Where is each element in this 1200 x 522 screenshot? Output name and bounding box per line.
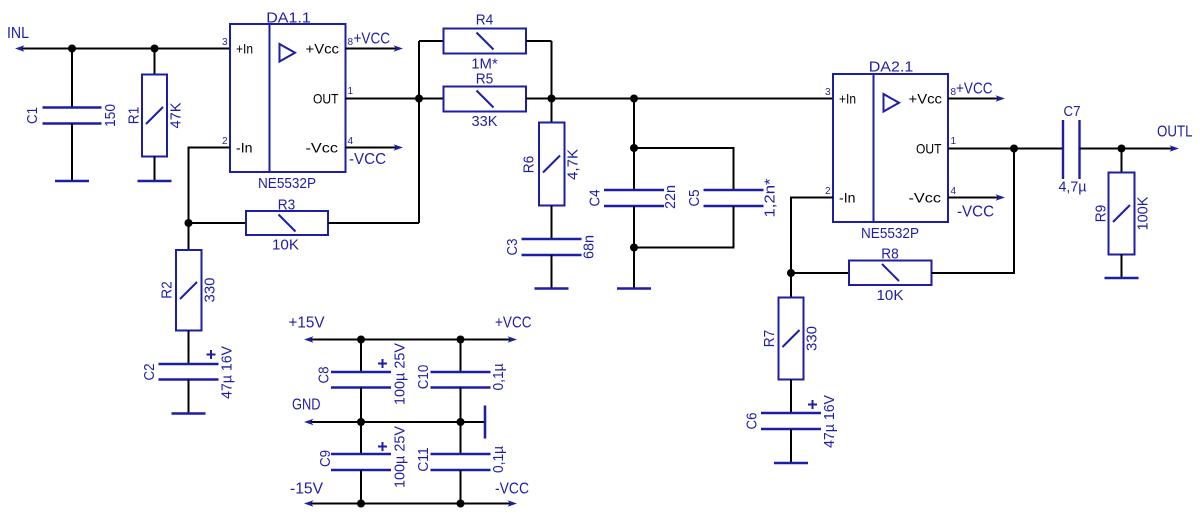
svg-text:100K: 100K — [1134, 197, 1151, 231]
svg-text:68n: 68n — [580, 235, 597, 259]
junction feedback node B — [787, 269, 795, 277]
op-amp DA1.1 — [222, 10, 354, 193]
svg-text:R9: R9 — [1092, 205, 1109, 223]
svg-text:C11: C11 — [415, 447, 432, 472]
junction C11 bottom — [457, 500, 465, 508]
svg-text:DA2.1: DA2.1 — [869, 59, 914, 76]
wire C11 upper lead — [460, 422, 462, 454]
wire DA2.1 -In feedback down — [791, 198, 833, 274]
junction OUT node — [415, 95, 423, 103]
junction R8/OUT node — [1010, 145, 1018, 153]
wire -15V rail — [309, 503, 512, 505]
svg-text:+In: +In — [236, 41, 253, 57]
svg-text:100µ 25V: 100µ 25V — [391, 426, 408, 488]
svg-text:2: 2 — [222, 136, 228, 147]
node -VCC arrow (rail) — [508, 500, 518, 507]
node +VCC arrow (DA2.1) — [996, 95, 1006, 102]
wire C8 lower lead — [360, 388, 362, 423]
wire R8 right up to OUT node — [932, 149, 1015, 274]
ground under C1 — [55, 180, 89, 183]
svg-text:150: 150 — [102, 104, 119, 127]
svg-text:+Vcc: +Vcc — [909, 91, 943, 107]
svg-text:+VCC: +VCC — [354, 31, 391, 48]
wire main input INL to DA1.1 +In — [20, 48, 230, 50]
node +VCC arrow (rail) — [508, 336, 518, 343]
svg-text:47µ 16V: 47µ 16V — [218, 346, 235, 399]
svg-text:C9: C9 — [317, 450, 334, 467]
wire C5 branch top — [634, 148, 734, 190]
svg-text:R4: R4 — [476, 12, 494, 29]
capacitor C6 (electrolytic) — [743, 395, 838, 448]
resistor R8 — [849, 246, 932, 305]
svg-text:-VCC: -VCC — [349, 151, 386, 168]
svg-text:C10: C10 — [415, 365, 432, 390]
ground under R1 — [138, 180, 172, 183]
node -VCC arrow (DA2.1) — [996, 194, 1006, 201]
wire DA2.1 -Vcc to -VCC arrow — [948, 197, 1000, 199]
ground under C4 — [617, 287, 651, 290]
junction C10/C11 mid — [457, 418, 465, 426]
junction C8/C9 mid — [357, 418, 365, 426]
wire GND rail — [309, 421, 484, 423]
svg-text:1,2n*: 1,2n* — [761, 178, 778, 217]
ground under C6 — [774, 462, 808, 465]
wire R4 right to riser — [526, 40, 552, 42]
capacitor C1 — [24, 104, 119, 127]
junction R5/R6 node — [548, 95, 556, 103]
wire DA1.1 OUT to riser — [346, 98, 444, 100]
wire DA2.1 OUT to C7 — [948, 148, 1063, 150]
wire C9 upper lead — [360, 422, 362, 454]
svg-text:-VCC: -VCC — [495, 481, 529, 498]
wire node A to R2 — [188, 223, 190, 250]
svg-text:330: 330 — [803, 326, 820, 351]
wire C10 upper lead — [460, 340, 462, 373]
wire node A to R3 — [189, 222, 247, 224]
svg-text:NE5532P: NE5532P — [861, 225, 919, 242]
svg-text:R1: R1 — [125, 107, 142, 125]
svg-text:10K: 10K — [272, 237, 299, 254]
svg-text:0,1µ: 0,1µ — [490, 446, 507, 473]
node -VCC arrow (DA1.1) — [394, 144, 404, 151]
svg-text:C2: C2 — [141, 364, 158, 381]
svg-text:-VCC: -VCC — [957, 204, 994, 221]
svg-text:NE5532P: NE5532P — [258, 175, 316, 192]
junction feedback node A — [185, 219, 193, 227]
node GND arrow — [304, 419, 314, 426]
ground under C3 — [535, 287, 569, 290]
junction C10 top — [457, 336, 465, 344]
node +15V arrow — [304, 336, 314, 343]
resistor R7 — [761, 298, 821, 380]
wire C5 branch bottom — [634, 206, 734, 248]
wire R3 right to vertical riser — [328, 222, 419, 224]
wire R7 to C6 — [790, 380, 792, 414]
junction C5 branch top — [630, 144, 638, 152]
node -15V arrow — [304, 500, 314, 507]
svg-text:100µ 25V: 100µ 25V — [391, 343, 408, 405]
svg-text:3: 3 — [825, 87, 831, 98]
resistor R6 — [520, 123, 581, 206]
svg-text:C3: C3 — [504, 239, 521, 256]
wire C4 column upper — [633, 99, 635, 190]
wire riser to R4 left — [419, 40, 444, 42]
ground under C2 — [172, 412, 206, 415]
svg-text:OUTL: OUTL — [1157, 124, 1193, 141]
svg-text:C8: C8 — [315, 367, 332, 384]
wire node B to R8 — [791, 272, 849, 274]
wire R6 to C3 — [551, 206, 553, 239]
svg-text:-Vcc: -Vcc — [306, 140, 339, 156]
junction C9 bottom — [357, 500, 365, 508]
node INL arrow — [15, 45, 25, 52]
wire R1 lower lead — [154, 157, 156, 181]
svg-text:22n: 22n — [662, 185, 679, 209]
junction R9 tap — [1118, 145, 1126, 153]
resistor R9 — [1092, 173, 1151, 255]
svg-text:-Vcc: -Vcc — [909, 190, 942, 206]
wire R2 to C2 — [188, 331, 190, 365]
junction R1 tap — [151, 45, 159, 53]
ground under R9 — [1105, 277, 1139, 280]
svg-text:C5: C5 — [686, 190, 703, 207]
resistor R2 — [158, 250, 218, 331]
wire C4 column lower — [633, 206, 635, 288]
svg-text:C6: C6 — [743, 413, 760, 430]
svg-text:4,7µ: 4,7µ — [1059, 179, 1087, 196]
capacitor C3 — [504, 235, 598, 259]
svg-text:R6: R6 — [520, 156, 537, 174]
svg-text:+VCC: +VCC — [495, 315, 532, 332]
capacitor C10 — [415, 363, 507, 390]
junction C5 branch bottom — [630, 244, 638, 252]
capacitor C9 (electrolytic) — [317, 426, 409, 488]
capacitor C7 — [1059, 103, 1087, 196]
resistor R4 — [444, 12, 527, 73]
wire DA1.1 -In feedback down — [189, 148, 231, 224]
svg-text:+VCC: +VCC — [956, 81, 993, 98]
wire R9 lower lead — [1121, 255, 1123, 278]
svg-text:R3: R3 — [278, 197, 296, 214]
svg-text:2: 2 — [825, 186, 831, 197]
svg-text:R5: R5 — [476, 71, 494, 88]
wire C11 lower lead — [460, 470, 462, 504]
wire right riser down to R6 — [551, 41, 553, 123]
node +VCC arrow (DA1.1) — [394, 45, 404, 52]
wire R1 upper lead — [154, 49, 156, 75]
capacitor C2 (electrolytic) — [141, 346, 236, 399]
svg-text:R7: R7 — [761, 330, 778, 348]
svg-text:OUT: OUT — [916, 141, 942, 157]
wire node B to R7 — [790, 273, 792, 298]
node OUTL arrow — [1170, 145, 1180, 152]
wire C1 upper lead — [71, 49, 73, 108]
wire vertical riser R4/R5/R3 — [418, 41, 420, 223]
resistor R3 — [246, 197, 328, 254]
junction C4 tap — [630, 95, 638, 103]
svg-text:+15V: +15V — [289, 315, 325, 332]
svg-text:0,1µ: 0,1µ — [490, 363, 507, 390]
svg-text:+In: +In — [839, 91, 856, 107]
wire C9 lower lead — [360, 470, 362, 504]
resistor R1 — [125, 75, 184, 157]
capacitor C5 — [686, 178, 779, 217]
svg-text:-In: -In — [236, 140, 253, 156]
wire C3 to ground — [551, 255, 553, 288]
resistor R5 — [444, 71, 527, 131]
svg-text:INL: INL — [7, 25, 29, 42]
wire R9 upper lead — [1121, 149, 1123, 173]
wire +15V rail — [309, 339, 512, 341]
svg-text:33K: 33K — [472, 113, 498, 130]
svg-text:47µ 16V: 47µ 16V — [821, 395, 838, 448]
svg-text:DA1.1: DA1.1 — [266, 10, 311, 27]
svg-text:10K: 10K — [877, 287, 904, 304]
svg-text:4: 4 — [348, 136, 354, 147]
capacitor C11 — [415, 446, 507, 473]
wire DA1.1 -Vcc to -VCC arrow — [346, 147, 399, 149]
wire C7 to OUTL arrow — [1080, 148, 1175, 150]
svg-text:1: 1 — [951, 136, 957, 147]
ground bar right of GND rail — [484, 406, 487, 439]
svg-text:OUT: OUT — [313, 91, 339, 107]
junction C1 tap — [68, 45, 76, 53]
wire DA1.1 +Vcc to +VCC arrow — [346, 48, 399, 50]
svg-text:1: 1 — [348, 86, 354, 97]
svg-text:R8: R8 — [881, 246, 899, 263]
wire C10 lower lead — [460, 388, 462, 423]
svg-text:3: 3 — [222, 37, 228, 48]
svg-text:4: 4 — [951, 186, 957, 197]
svg-text:+Vcc: +Vcc — [306, 41, 340, 57]
capacitor C8 (electrolytic) — [315, 343, 408, 405]
capacitor C4 — [586, 185, 679, 209]
wire C6 to ground — [790, 429, 792, 463]
svg-text:4,7K: 4,7K — [564, 149, 581, 180]
svg-text:47K: 47K — [167, 103, 184, 129]
svg-text:R2: R2 — [158, 281, 175, 299]
svg-text:C4: C4 — [586, 190, 603, 207]
wire R5 right to DA2.1 +In — [526, 98, 833, 100]
wire C1 lower lead — [71, 124, 73, 181]
svg-text:C1: C1 — [24, 107, 41, 124]
svg-text:GND: GND — [292, 397, 321, 414]
op-amp DA2.1 — [825, 59, 957, 243]
wire C8 upper lead — [360, 340, 362, 373]
svg-text:C7: C7 — [1064, 103, 1081, 120]
wire C2 to ground — [188, 380, 190, 414]
svg-text:-In: -In — [839, 190, 856, 206]
svg-text:-15V: -15V — [290, 481, 323, 498]
wire DA2.1 +Vcc to +VCC arrow — [948, 98, 1000, 100]
junction C8 top — [357, 336, 365, 344]
svg-text:330: 330 — [201, 278, 218, 303]
